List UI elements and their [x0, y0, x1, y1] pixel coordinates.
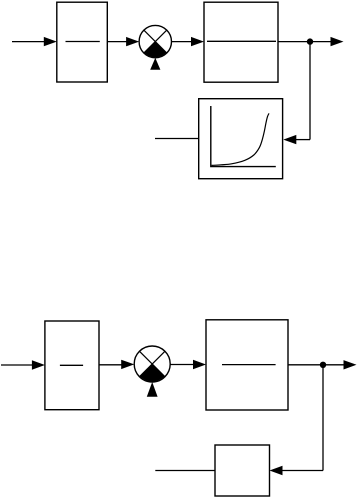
wire: G3 to summing junction S2 [99, 364, 123, 366]
exponential curve inside H1 [212, 113, 269, 165]
wire: node down (feedback vertical) [322, 365, 324, 471]
wire: node to output arrow [310, 41, 332, 43]
summing junction S2 [134, 346, 170, 382]
node: bottom output pickoff [320, 362, 326, 368]
wire: G4 to output node [288, 364, 323, 366]
arrowhead into block G4 [193, 360, 206, 369]
arrowhead: input from below into S2 [147, 382, 158, 397]
block G1 [57, 2, 108, 82]
arrowhead into block G3 [32, 360, 45, 369]
wire: node to output arrow [323, 364, 345, 366]
axes inside H1 [211, 106, 276, 167]
arrowhead into block G1 [44, 37, 57, 46]
wire: S1 to block G2 [172, 41, 193, 43]
wire: G2 to output node [278, 41, 310, 43]
arrowhead: bottom output [344, 360, 357, 369]
wire: top input [12, 41, 46, 43]
wire: bottom input [1, 364, 34, 366]
wire: G1 to summing junction [107, 41, 128, 43]
fraction bar inside G4 [222, 364, 276, 366]
block H1 (nonlinear feedback) [199, 99, 283, 179]
wire: H1 output to the left [155, 138, 199, 140]
wire: feedback horizontal to H1 [295, 139, 310, 141]
arrowhead into summing junction S2 [121, 360, 134, 369]
fraction bar inside G2 [207, 40, 276, 42]
arrowhead into summing junction S1 [126, 37, 139, 46]
wire: S2 to block G4 [170, 364, 194, 366]
arrowhead into block H2 [270, 466, 283, 475]
arrowhead: top output [331, 37, 344, 46]
fraction bar inside G1 [66, 41, 100, 43]
block G2 [204, 2, 278, 82]
arrowhead into block G2 [191, 37, 204, 46]
block G3 [45, 321, 99, 410]
wire: H2 output to the left [155, 470, 215, 472]
wire: node down (feedback vertical) [309, 42, 311, 140]
node: top output pickoff [307, 38, 313, 44]
arrowhead: input from below into S1 [150, 58, 160, 70]
wire: feedback horizontal to H2 [282, 470, 323, 472]
block H2 (feedback block) [215, 445, 270, 496]
fraction bar inside G3 [60, 364, 83, 366]
summing junction S1 [139, 25, 171, 57]
arrowhead into block H1 [283, 135, 296, 144]
block G4 [206, 320, 288, 410]
